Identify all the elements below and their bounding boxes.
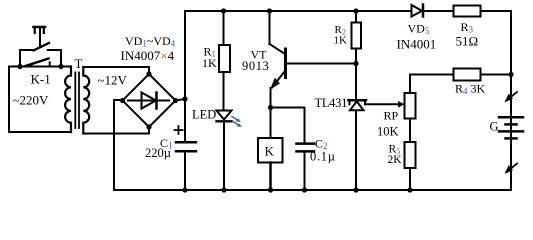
wire C1 to bottom rail	[184, 152, 186, 190]
resistor R2	[352, 11, 362, 99]
resistor R4	[454, 69, 481, 81]
svg-text:VD1~VD4: VD1~VD4	[125, 34, 176, 49]
bridge inner diode	[128, 93, 169, 109]
node R5 bottom	[407, 187, 412, 192]
svg-text:0.1µ: 0.1µ	[310, 150, 336, 164]
svg-text:9013: 9013	[242, 59, 269, 73]
capacitor C2	[297, 144, 315, 152]
svg-text:10K: 10K	[377, 125, 399, 139]
LED	[217, 111, 232, 191]
node bridge bottom	[146, 124, 151, 129]
wire emitter to C2	[271, 108, 305, 143]
diode VD5	[412, 5, 424, 17]
svg-text:1K: 1K	[202, 56, 217, 70]
svg-text:IN4001: IN4001	[397, 37, 437, 52]
pushbutton contact (upper switch)	[20, 43, 61, 50]
node bridge right	[173, 98, 178, 103]
node C1 bottom	[182, 187, 187, 192]
svg-text:2K: 2K	[388, 154, 403, 166]
node R1 top	[221, 8, 226, 13]
node K bottom	[268, 187, 273, 192]
wire R4 row	[410, 74, 511, 76]
capacitor C1	[176, 142, 196, 151]
node switch right	[58, 64, 63, 69]
connector clip upper	[505, 92, 518, 102]
connector clip lower	[505, 164, 518, 174]
svg-text:RP: RP	[384, 109, 399, 123]
TL431 U1	[349, 100, 367, 190]
wire 220V loop left/bottom	[9, 67, 71, 133]
resistor R5	[405, 142, 416, 190]
node bridge top	[146, 71, 151, 76]
relay contact K-1 (lower switch)	[25, 59, 50, 67]
resistor R1	[219, 11, 230, 111]
node R4 right	[508, 72, 513, 77]
svg-text:51Ω: 51Ω	[456, 34, 479, 49]
node base junction	[353, 61, 358, 66]
LED emission arrows	[232, 117, 242, 128]
wire switch right rail	[60, 50, 62, 67]
potentiometer RP	[405, 75, 416, 143]
svg-text:~220V: ~220V	[13, 93, 50, 108]
node VT collector top	[267, 8, 272, 13]
wire secondary bottom to bridge	[83, 127, 149, 134]
svg-text:G: G	[490, 120, 499, 134]
wire bridge negative to bottom rail	[114, 100, 122, 190]
pushbutton cap	[34, 27, 46, 47]
svg-text:220µ: 220µ	[145, 146, 171, 160]
wire right column (battery branch)	[510, 11, 512, 190]
transformer T secondary winding	[83, 67, 89, 134]
C1 plus sign	[175, 126, 183, 134]
svg-text:TL431: TL431	[315, 96, 348, 110]
node LED bottom	[221, 187, 226, 192]
wire switch left rail	[19, 50, 21, 67]
svg-text:IN4007×4: IN4007×4	[121, 48, 175, 63]
TL431 reference wire to RP wiper	[365, 101, 405, 108]
svg-text:1K: 1K	[334, 35, 348, 47]
svg-text:LED: LED	[192, 108, 216, 122]
node VT emitter junction	[268, 105, 273, 110]
svg-text:K: K	[265, 144, 275, 159]
resistor R3	[454, 6, 481, 17]
node C1 column top	[182, 96, 187, 101]
node C2 bottom	[302, 187, 307, 192]
wire 220V row	[9, 66, 71, 68]
wire secondary top to bridge	[83, 67, 149, 74]
node bridge left	[120, 98, 125, 103]
transformer T primary winding	[65, 67, 71, 133]
battery G	[499, 117, 523, 138]
svg-text:K-1: K-1	[31, 72, 51, 87]
wire C1 column	[184, 11, 186, 141]
bridge rectifier VD1~VD4 diamond	[123, 74, 176, 127]
svg-text:~12V: ~12V	[98, 73, 128, 88]
relay coil K	[258, 138, 283, 190]
svg-text:R4 3K: R4 3K	[455, 82, 486, 97]
wire bridge positive to C1 column	[176, 99, 186, 101]
wire bottom rail (-)	[114, 189, 511, 191]
node R2 top	[353, 8, 358, 13]
wire top rail (+)	[185, 10, 511, 12]
svg-text:T: T	[75, 56, 83, 71]
transformer core	[75, 73, 79, 129]
wire C2 to bottom rail	[304, 152, 306, 190]
node switch left	[17, 64, 22, 69]
node TL431 anode bottom	[353, 187, 358, 192]
transistor VT 9013	[270, 11, 357, 138]
